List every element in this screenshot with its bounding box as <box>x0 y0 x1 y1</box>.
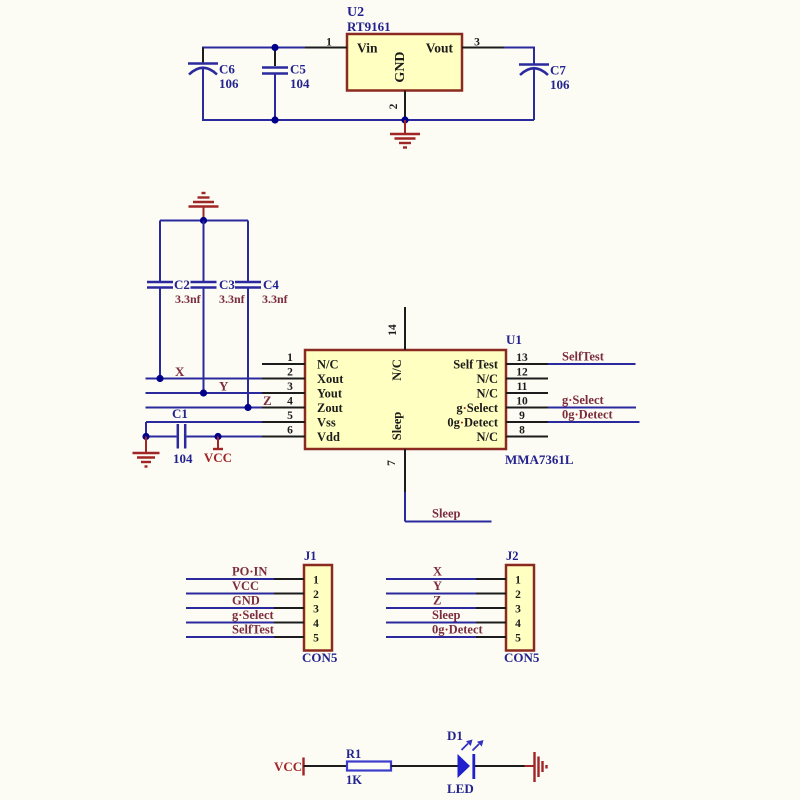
pin 1 U2 <box>305 47 347 49</box>
wire C5 vertical <box>274 48 276 67</box>
pin 14 N/C top <box>404 307 406 350</box>
wire ground bus horizontal <box>160 220 248 222</box>
ground left of C1 <box>133 437 160 467</box>
svg-text:5: 5 <box>515 633 521 645</box>
ground right sideways <box>525 752 547 782</box>
node junction Y <box>200 389 207 396</box>
svg-text:VCC: VCC <box>274 759 302 774</box>
wire C6 left vertical <box>202 48 204 64</box>
resistor R1 <box>346 747 391 787</box>
svg-text:7: 7 <box>386 460 398 466</box>
svg-text:Yout: Yout <box>317 387 343 401</box>
wire J1 pin5 SelfTest <box>186 636 274 638</box>
wire J2 pin1 X <box>386 578 476 580</box>
wire J1 pin3 GND <box>186 607 274 609</box>
svg-text:1K: 1K <box>346 773 362 787</box>
node junction VCC tap <box>214 433 221 440</box>
pin 6 Vdd <box>262 436 305 438</box>
svg-text:D1: D1 <box>447 728 463 743</box>
svg-text:2: 2 <box>287 367 293 379</box>
node junction Z <box>244 404 251 411</box>
svg-text:1: 1 <box>287 352 293 364</box>
svg-text:14: 14 <box>387 324 399 336</box>
svg-text:g·Select: g·Select <box>456 401 498 415</box>
svg-text:VCC: VCC <box>232 579 259 593</box>
svg-text:106: 106 <box>219 76 239 91</box>
pin 1 N/C <box>262 363 305 365</box>
wire net SelfTest <box>548 363 636 365</box>
svg-text:106: 106 <box>550 77 570 92</box>
svg-text:5: 5 <box>287 410 293 422</box>
wire J1 pin2 VCC <box>186 593 274 595</box>
svg-text:PO·IN: PO·IN <box>232 565 267 579</box>
svg-text:C4: C4 <box>263 277 279 292</box>
svg-text:N/C: N/C <box>476 372 498 386</box>
op-amp U2 body <box>347 5 462 91</box>
pin 3 Yout <box>262 392 305 394</box>
capacitor C3 <box>191 277 246 306</box>
svg-text:Self Test: Self Test <box>453 358 499 372</box>
node junction C1/ground <box>142 433 149 440</box>
svg-text:12: 12 <box>516 367 528 379</box>
svg-text:X: X <box>175 364 185 379</box>
wire bottom bus <box>202 119 534 121</box>
svg-text:LED: LED <box>447 781 474 796</box>
svg-text:4: 4 <box>287 396 293 408</box>
svg-text:2: 2 <box>388 103 400 109</box>
pin 10 g-Select <box>506 407 548 409</box>
svg-text:3.3nf: 3.3nf <box>175 292 202 306</box>
svg-text:C1: C1 <box>172 406 188 421</box>
svg-text:4: 4 <box>515 618 521 630</box>
wire VCC to R1 <box>304 765 348 767</box>
wire J1 pin4 g-Select <box>186 622 274 624</box>
capacitor C5 <box>262 62 310 92</box>
connector J1 body <box>302 549 338 665</box>
wire net Z <box>146 407 263 409</box>
svg-text:Xout: Xout <box>317 372 344 386</box>
svg-text:10: 10 <box>516 396 528 408</box>
wire J2 pin3 Z <box>386 607 476 609</box>
svg-text:3.3nf: 3.3nf <box>219 292 246 306</box>
pin 13 Self Test <box>506 363 548 365</box>
pin 8 N/C <box>506 436 548 438</box>
capacitor C6 <box>188 62 239 92</box>
svg-text:Z: Z <box>433 594 441 608</box>
svg-text:C3: C3 <box>219 277 235 292</box>
svg-text:C6: C6 <box>219 62 235 77</box>
svg-text:J2: J2 <box>506 549 519 563</box>
node junction ground bus <box>200 217 207 224</box>
svg-text:6: 6 <box>287 425 293 437</box>
pin 7 Sleep bottom <box>404 449 406 492</box>
svg-text:SelfTest: SelfTest <box>562 350 605 364</box>
pin 12 N/C <box>506 378 548 380</box>
wire net X <box>146 378 263 380</box>
svg-text:Vout: Vout <box>426 41 454 56</box>
svg-text:CON5: CON5 <box>504 650 540 665</box>
capacitor C7 <box>519 63 570 93</box>
svg-text:X: X <box>433 565 442 579</box>
svg-text:J1: J1 <box>304 549 317 563</box>
wire U2 pin3 to C7 <box>504 47 535 49</box>
svg-text:Vss: Vss <box>317 416 336 430</box>
svg-text:C2: C2 <box>174 277 190 292</box>
svg-text:RT9161: RT9161 <box>347 19 391 34</box>
svg-text:g·Select: g·Select <box>232 608 274 622</box>
capacitor C2 <box>147 277 202 306</box>
wire net 0g-Detect <box>548 421 640 423</box>
wire Vdd right segment <box>187 436 263 438</box>
svg-text:11: 11 <box>517 381 528 393</box>
wire Sleep net <box>405 492 492 522</box>
svg-text:1: 1 <box>515 575 521 587</box>
svg-text:0g·Detect: 0g·Detect <box>447 416 499 430</box>
capacitor C1 <box>172 406 193 466</box>
svg-text:U1: U1 <box>506 332 522 347</box>
wire net Y <box>146 392 263 394</box>
svg-text:GND: GND <box>393 51 408 82</box>
wire J1 pin1 PO-IN <box>186 578 274 580</box>
wire J2 pin2 Y <box>386 593 476 595</box>
connector J2 body <box>504 549 540 665</box>
svg-text:CON5: CON5 <box>302 650 338 665</box>
node junction pin2/ground <box>401 116 408 123</box>
wire C2 vertical <box>159 221 161 282</box>
wire Vss to ground <box>146 421 262 423</box>
node junction C5 bottom <box>271 116 278 123</box>
pin 9 0g-Detect <box>506 421 548 423</box>
ground top inverted <box>189 193 219 221</box>
svg-text:3: 3 <box>313 604 319 616</box>
svg-text:1: 1 <box>313 575 319 587</box>
svg-text:Z: Z <box>263 393 272 408</box>
svg-text:4: 4 <box>313 618 319 630</box>
svg-text:SelfTest: SelfTest <box>232 623 275 637</box>
svg-text:U2: U2 <box>347 5 364 20</box>
wire D1 to ground <box>475 765 525 767</box>
svg-text:104: 104 <box>173 451 193 466</box>
pin 11 N/C <box>506 392 548 394</box>
wire C3 vertical <box>203 221 205 282</box>
svg-text:2: 2 <box>313 589 319 601</box>
capacitor C4 <box>235 277 289 306</box>
svg-text:3: 3 <box>515 604 521 616</box>
svg-text:GND: GND <box>232 594 260 608</box>
svg-text:2: 2 <box>515 589 521 601</box>
svg-text:N/C: N/C <box>317 358 339 372</box>
svg-text:Y: Y <box>219 379 229 394</box>
wire C7 vertical <box>533 48 535 65</box>
op-amp U1 body <box>305 332 574 467</box>
svg-text:3: 3 <box>474 37 480 49</box>
svg-text:VCC: VCC <box>204 450 232 465</box>
diode D1 LED <box>447 728 484 796</box>
svg-text:Vdd: Vdd <box>317 430 340 444</box>
svg-text:Sleep: Sleep <box>390 412 404 441</box>
svg-text:R1: R1 <box>346 747 361 761</box>
svg-text:104: 104 <box>290 76 310 91</box>
svg-text:MMA7361L: MMA7361L <box>505 452 574 467</box>
svg-text:3: 3 <box>287 381 293 393</box>
svg-text:5: 5 <box>313 633 319 645</box>
node junction C5 top <box>271 44 278 51</box>
power port VCC mid <box>204 437 232 466</box>
svg-text:C5: C5 <box>290 62 306 77</box>
svg-text:3.3nf: 3.3nf <box>262 292 289 306</box>
svg-text:13: 13 <box>516 352 528 364</box>
svg-text:N/C: N/C <box>476 430 498 444</box>
svg-text:Y: Y <box>433 579 442 593</box>
svg-text:Vin: Vin <box>357 41 378 56</box>
svg-text:0g·Detect: 0g·Detect <box>562 408 614 422</box>
svg-text:Sleep: Sleep <box>432 507 461 521</box>
svg-text:N/C: N/C <box>390 359 404 381</box>
svg-text:Zout: Zout <box>317 401 344 415</box>
pin 2 Xout <box>262 378 305 380</box>
svg-text:9: 9 <box>519 410 525 422</box>
pin 2 U2 <box>404 91 406 121</box>
ground below U2 <box>390 120 420 148</box>
wire J2 pin5 0g-Detect <box>386 636 476 638</box>
power port VCC bottom <box>274 758 304 776</box>
wire R1 to D1 <box>391 765 458 767</box>
wire Vdd left segment <box>146 436 177 438</box>
wire C4 vertical <box>247 221 249 282</box>
node junction X <box>156 375 163 382</box>
svg-text:1: 1 <box>326 37 332 49</box>
svg-text:8: 8 <box>519 425 525 437</box>
pin 4 Zout <box>262 407 305 409</box>
wire net g-Select <box>548 407 636 409</box>
pin 5 Vss <box>262 421 305 423</box>
svg-text:0g·Detect: 0g·Detect <box>432 623 484 637</box>
wire top bus C6 to U2 pin1 <box>202 47 305 49</box>
svg-text:Sleep: Sleep <box>432 608 461 622</box>
wire J2 pin4 Sleep <box>386 622 476 624</box>
pin 3 U2 <box>462 47 504 49</box>
svg-text:C7: C7 <box>550 63 566 78</box>
svg-text:N/C: N/C <box>476 387 498 401</box>
svg-text:g·Select: g·Select <box>562 393 604 407</box>
